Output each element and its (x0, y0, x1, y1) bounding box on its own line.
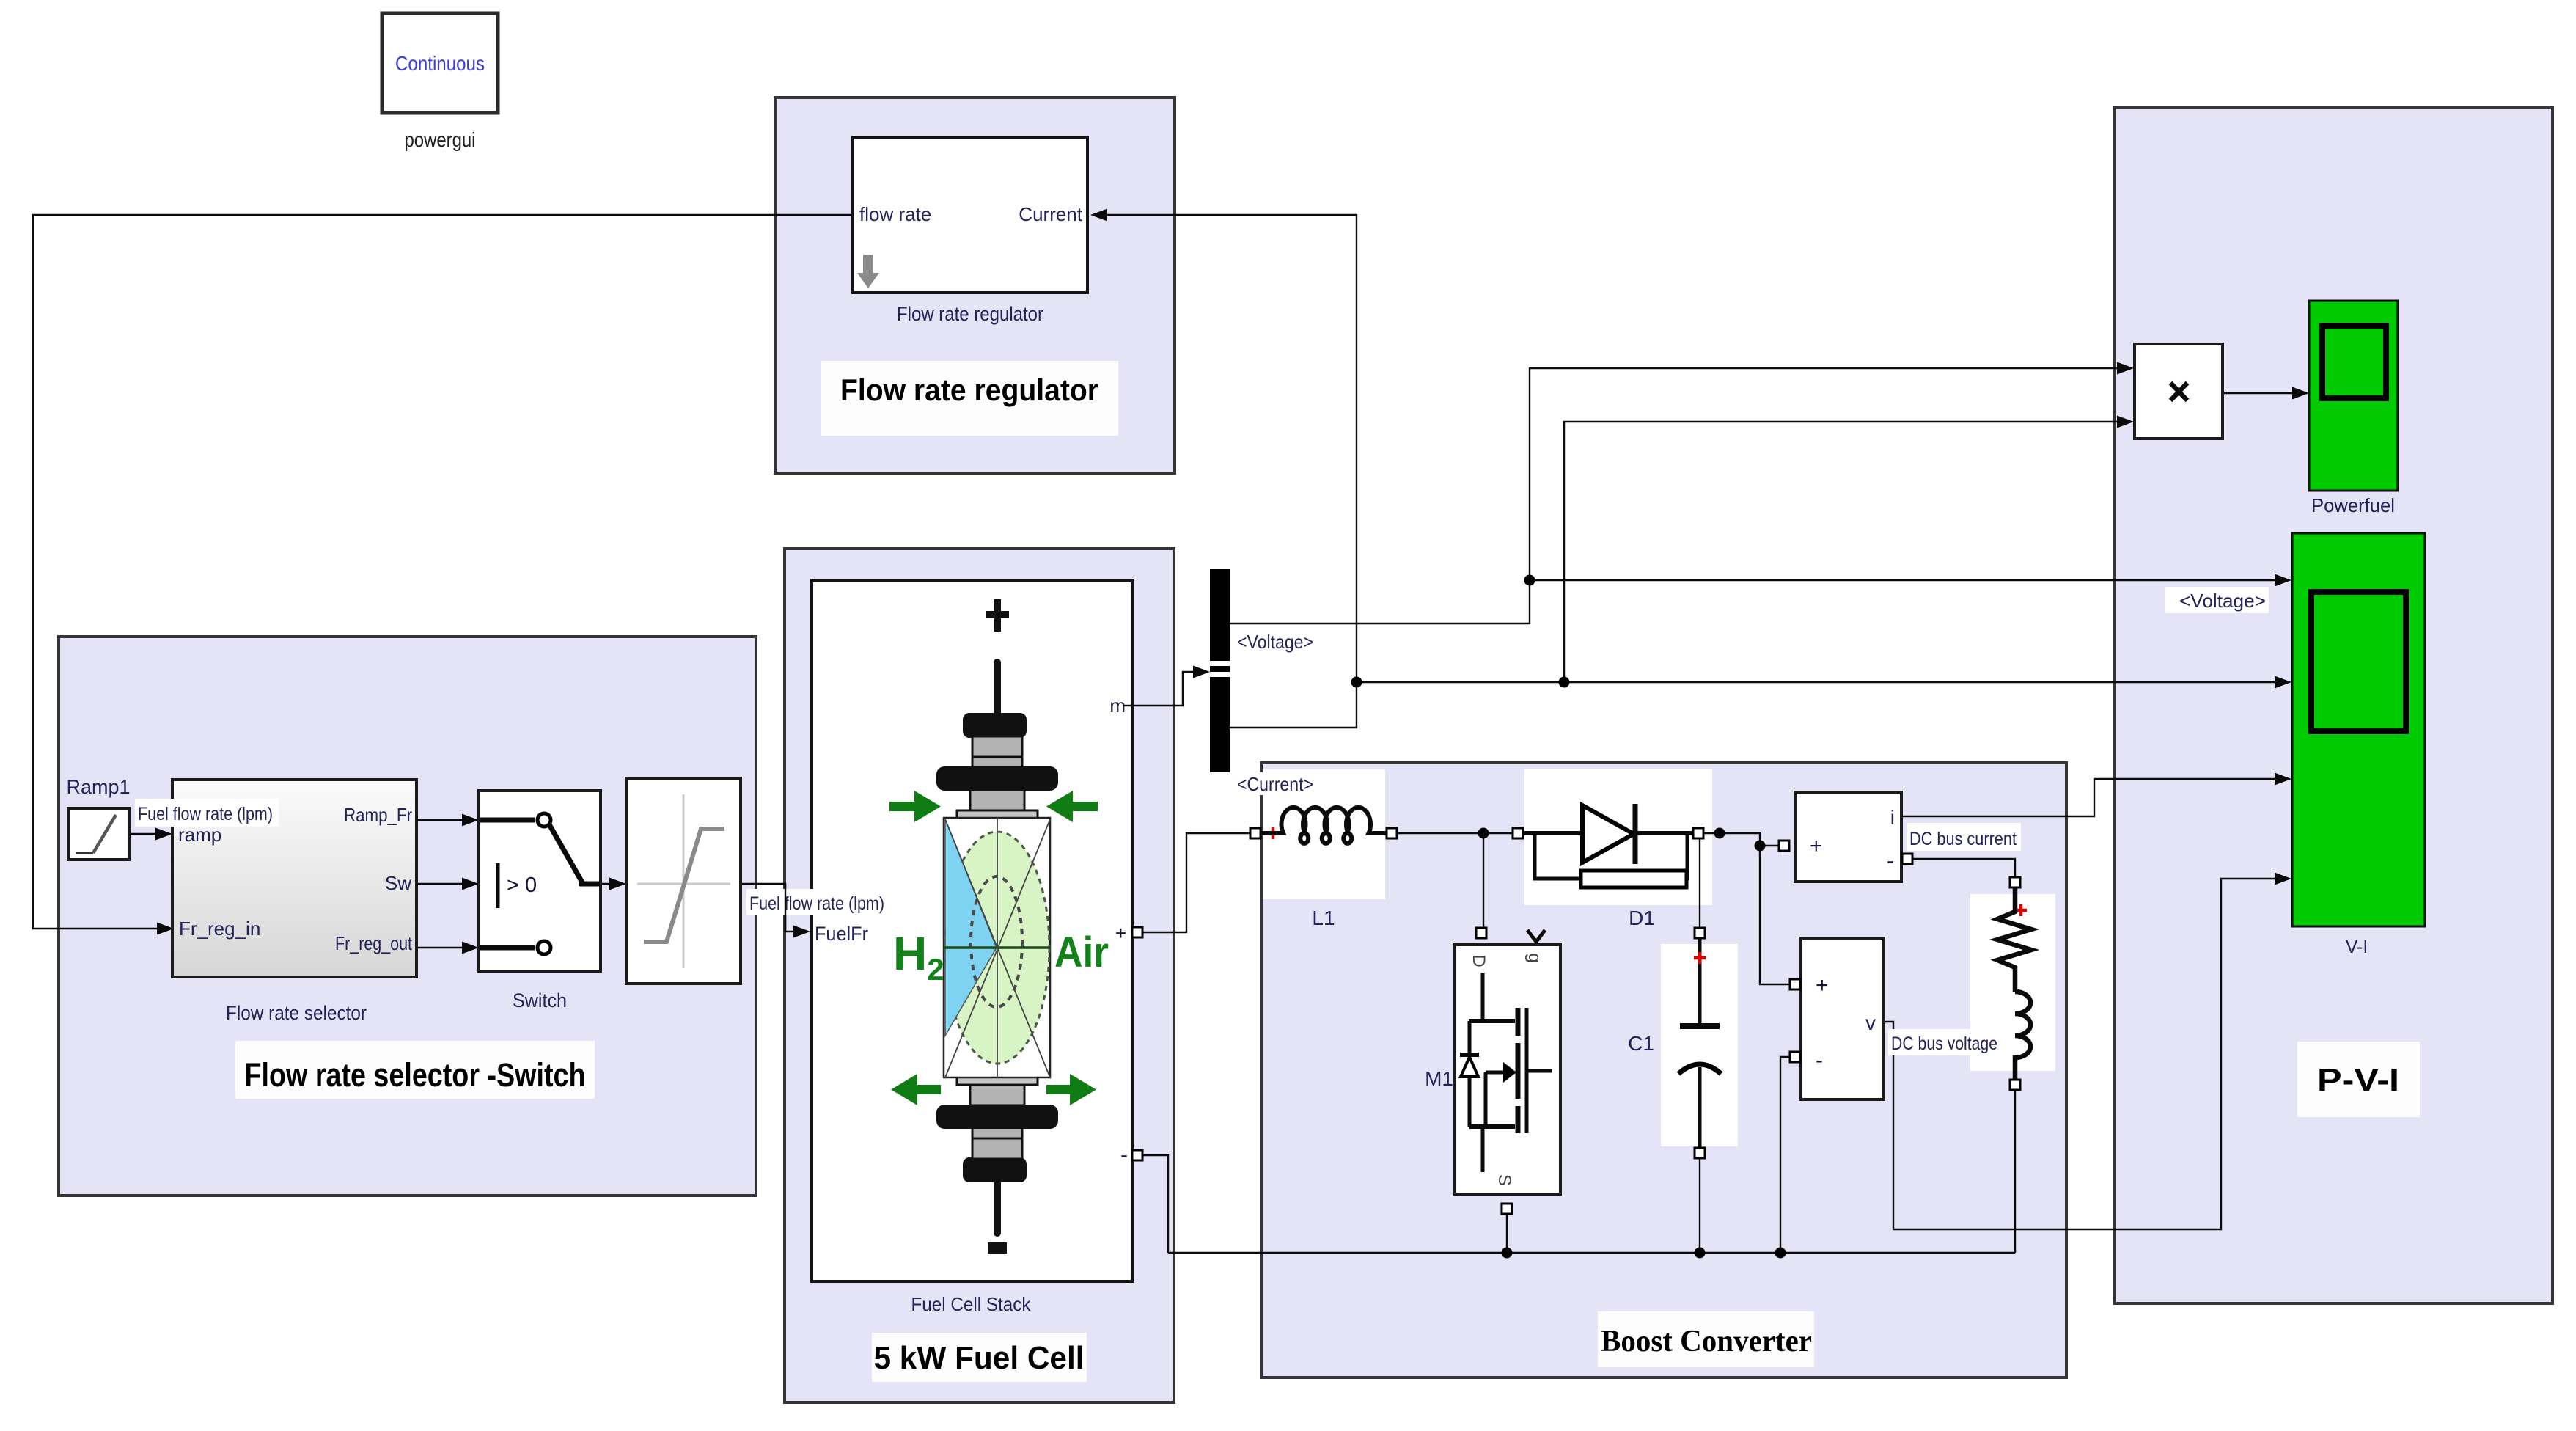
wire: Current feedback from current junction to regulator (1094, 215, 1357, 728)
title P-V-I (2297, 1042, 2420, 1117)
label Fuel flow rate (lpm) near ramp (135, 799, 279, 827)
wire: current measurement - to load (1912, 859, 2015, 877)
wire: M1 source to ground rail (1506, 1214, 1508, 1253)
svg-text:M1: M1 (1425, 1067, 1453, 1090)
svg-text:FuelFr: FuelFr (815, 923, 868, 945)
svg-text:+: + (1816, 973, 1829, 998)
title Flow rate selector -Switch (235, 1041, 595, 1099)
icon patch C1 (1661, 944, 1738, 1146)
svg-text:powergui: powergui (405, 128, 476, 151)
wire: C1 bottom to ground rail (1699, 1158, 1700, 1253)
svg-text:Continuous: Continuous (395, 52, 485, 75)
fuel cell icon: top electrode stack (936, 659, 1058, 819)
icon patch L1 (1263, 769, 1385, 899)
label DC bus current (1907, 823, 2021, 851)
diode D1 (1513, 828, 1523, 838)
wire: Sw to Switch input 2 (417, 883, 473, 885)
label DC bus voltage (1888, 1029, 2000, 1055)
wire: saturation output to FuelFr input (741, 884, 804, 932)
svg-text:Ramp_Fr: Ramp_Fr (344, 804, 412, 826)
wire: product output to Powerfuel scope (2223, 392, 2303, 394)
svg-text:V-I: V-I (2346, 937, 2368, 957)
title Boost Converter (1598, 1311, 1814, 1367)
subsystem area: 5 kW Fuel Cell (785, 549, 1174, 1402)
switch block Switch (479, 791, 601, 971)
fuel cell icon: plus terminal (986, 611, 1009, 618)
wire: Ramp_Fr to Switch input 1 (417, 819, 473, 821)
svg-text:S: S (1494, 1174, 1514, 1186)
load resistor-inductor (2010, 877, 2020, 887)
inductor L1 (1250, 828, 1261, 838)
svg-text:-: - (1887, 849, 1894, 873)
svg-text:Fuel flow rate (lpm): Fuel flow rate (lpm) (138, 804, 273, 824)
wire: i measurement signal to V-I input 3 (1901, 779, 2286, 816)
svg-text:P-V-I: P-V-I (2317, 1062, 2399, 1098)
title 5 kW Fuel Cell (872, 1333, 1087, 1382)
voltage measurement v (1801, 938, 1884, 1099)
svg-text:L1: L1 (1312, 907, 1335, 929)
wire: branch down to voltage measurement + (1760, 846, 1790, 984)
svg-text:Air: Air (1054, 929, 1109, 976)
icon patch load R (1970, 894, 2055, 1071)
svg-text:flow rate: flow rate (859, 203, 931, 225)
svg-text:<Voltage>: <Voltage> (2179, 590, 2266, 612)
icon patch D1 (1524, 769, 1712, 905)
svg-text:Switch: Switch (513, 989, 567, 1011)
svg-text:D: D (1469, 954, 1489, 967)
svg-text:Sw: Sw (385, 872, 411, 894)
fuel cell icon: green arrows bottom (outward) (891, 1074, 1096, 1105)
wire: voltage measurement - to ground rail (1780, 1057, 1790, 1253)
svg-text:Flow rate selector -Switch: Flow rate selector -Switch (245, 1056, 586, 1094)
saturation block (626, 778, 741, 984)
current measurement i (1795, 792, 1901, 882)
wire: fuel cell m port to bus selector (1132, 672, 1204, 706)
wire: fuel cell - to ground rail (1138, 1155, 1168, 1253)
svg-text:ramp: ramp (178, 824, 221, 846)
svg-text:Fr_reg_in: Fr_reg_in (179, 918, 260, 940)
subsystem area: P-V-I (2115, 107, 2553, 1303)
fuel cell icon: membrane cell (944, 818, 1050, 1077)
product block (2135, 344, 2223, 439)
wire: Switch output to Saturation (601, 883, 620, 885)
wire: voltage branch to V-I scope input 1 (1530, 579, 2286, 581)
svg-text:Boost Converter: Boost Converter (1601, 1325, 1812, 1358)
svg-text:Fuel Cell Stack: Fuel Cell Stack (911, 1293, 1032, 1315)
scope V-I (2292, 533, 2425, 926)
label Current out (1234, 772, 1316, 795)
Flow rate regulator block (853, 137, 1087, 293)
svg-text:DC bus voltage: DC bus voltage (1891, 1033, 1997, 1054)
svg-text:<Current>: <Current> (1237, 773, 1313, 795)
fuel cell icon: minus terminal (988, 1242, 1007, 1254)
wire: fuel cell + to L1 (1138, 833, 1250, 932)
wire: load bottom to ground rail (2014, 1090, 2016, 1253)
svg-text:m: m (1109, 695, 1126, 717)
svg-text:v: v (1865, 1011, 1876, 1034)
subsystem area: Flow rate regulator (775, 98, 1175, 473)
title Flow rate regulator (821, 361, 1118, 436)
wire: current branch to V-I scope input 2 (1357, 681, 2286, 683)
fuel cell icon: green arrows top (inward) (889, 791, 1098, 822)
wire: Fr_reg_out to Switch input 3 (417, 947, 473, 948)
fuel cell icon: bottom electrode stack (mirrored) (936, 1076, 1058, 1237)
scope Powerfuel (2309, 301, 2398, 491)
wire: v measurement signal to V-I input 4 (1884, 879, 2286, 1229)
svg-text:-: - (1120, 1143, 1128, 1167)
svg-text:Flow rate regulator: Flow rate regulator (897, 303, 1043, 325)
svg-text:+: + (1115, 922, 1126, 944)
wire: L1 to D1 with M1 drain branch (1397, 832, 1513, 834)
wire: current branch up to product input 2 (1564, 422, 2129, 682)
svg-text:D1: D1 (1629, 907, 1655, 929)
svg-text:Fuel flow rate (lpm): Fuel flow rate (lpm) (749, 893, 884, 914)
Fuel Cell Stack block (812, 581, 1132, 1281)
svg-text:g: g (1524, 953, 1544, 962)
svg-text:i: i (1890, 806, 1895, 829)
wire: branch down to C1 (1699, 838, 1700, 928)
svg-text:<Voltage>: <Voltage> (1237, 631, 1313, 653)
label Voltage out (1234, 631, 1316, 654)
label Fuel flow rate (lpm) at FuelFr (746, 889, 890, 915)
svg-text:Ramp1: Ramp1 (66, 776, 130, 798)
svg-text:Current: Current (1019, 203, 1082, 225)
subsystem area: Boost Converter (1261, 763, 2066, 1377)
regulator gray down arrow icon (857, 255, 879, 288)
wire: ground rail (1168, 1252, 2015, 1254)
powergui block (382, 13, 498, 113)
ramp source Ramp1 (68, 808, 129, 860)
wire: D1 cathode to current measurement + (1703, 833, 1779, 846)
wire: flow rate output to Fr_reg_in (33, 215, 853, 929)
wire: voltage output of bus selector (1230, 368, 2129, 623)
svg-text:Powerfuel: Powerfuel (2311, 494, 2395, 516)
svg-text:Flow rate regulator: Flow rate regulator (840, 373, 1098, 407)
svg-text:DC bus current: DC bus current (1909, 829, 2017, 849)
svg-text:Fr_reg_out: Fr_reg_out (335, 932, 413, 954)
svg-text:+: + (1810, 834, 1823, 858)
bus selector bar (1210, 569, 1230, 772)
MOSFET M1 (1476, 928, 1486, 938)
svg-text:> 0: > 0 (507, 874, 537, 897)
svg-text:Flow rate selector: Flow rate selector (226, 1002, 367, 1024)
subsystem area: Flow rate selector -Switch (59, 637, 756, 1196)
wire: Ramp1 to ramp input (129, 833, 167, 835)
svg-text:C1: C1 (1628, 1032, 1654, 1055)
svg-text:5 kW Fuel Cell: 5 kW Fuel Cell (874, 1340, 1085, 1376)
label Voltage at V-I input (2165, 587, 2269, 613)
svg-text:-: - (1816, 1048, 1823, 1072)
capacitor C1 (1695, 928, 1705, 938)
